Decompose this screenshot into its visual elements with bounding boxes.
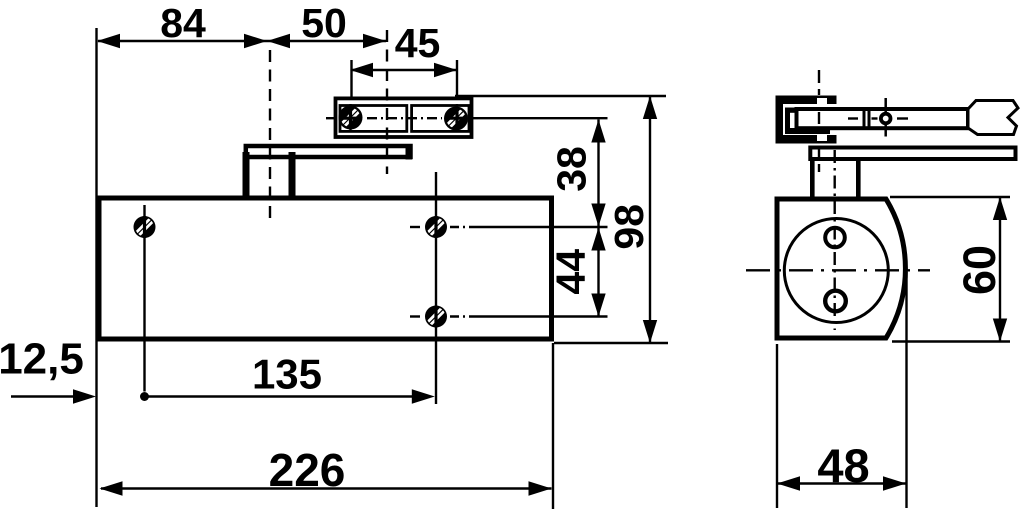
svg-text:226: 226 (269, 444, 346, 496)
svg-text:60: 60 (954, 245, 1005, 295)
svg-text:135: 135 (252, 351, 322, 398)
svg-text:98: 98 (606, 204, 652, 250)
svg-text:12,5: 12,5 (0, 335, 84, 384)
svg-text:48: 48 (817, 439, 869, 492)
svg-text:50: 50 (301, 0, 347, 46)
svg-text:84: 84 (160, 0, 206, 46)
svg-text:45: 45 (395, 20, 441, 66)
svg-text:44: 44 (548, 249, 594, 295)
svg-text:38: 38 (549, 146, 595, 192)
